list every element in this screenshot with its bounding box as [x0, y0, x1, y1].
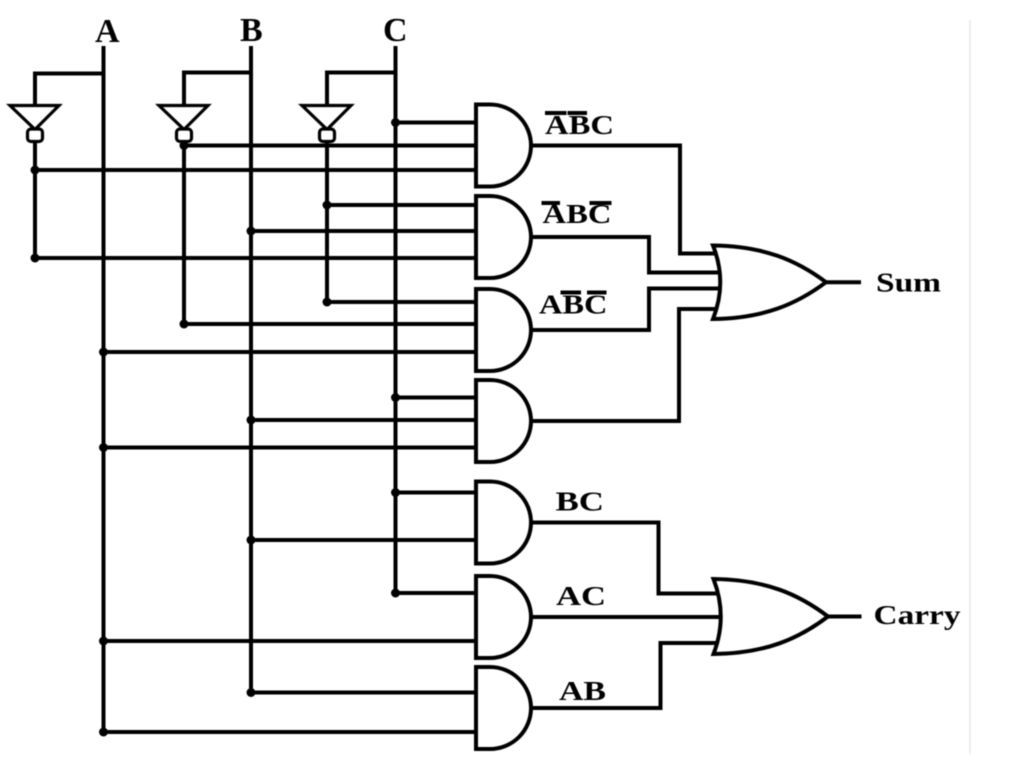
svg-text:C: C — [383, 12, 408, 49]
svg-text:AB: AB — [559, 676, 606, 706]
svg-text:B: B — [240, 12, 263, 49]
svg-text:AC: AC — [556, 581, 606, 611]
svg-text:Carry: Carry — [874, 600, 962, 630]
svg-text:BC: BC — [556, 487, 605, 517]
svg-text:A: A — [95, 13, 120, 50]
svg-text:Sum: Sum — [876, 268, 942, 298]
